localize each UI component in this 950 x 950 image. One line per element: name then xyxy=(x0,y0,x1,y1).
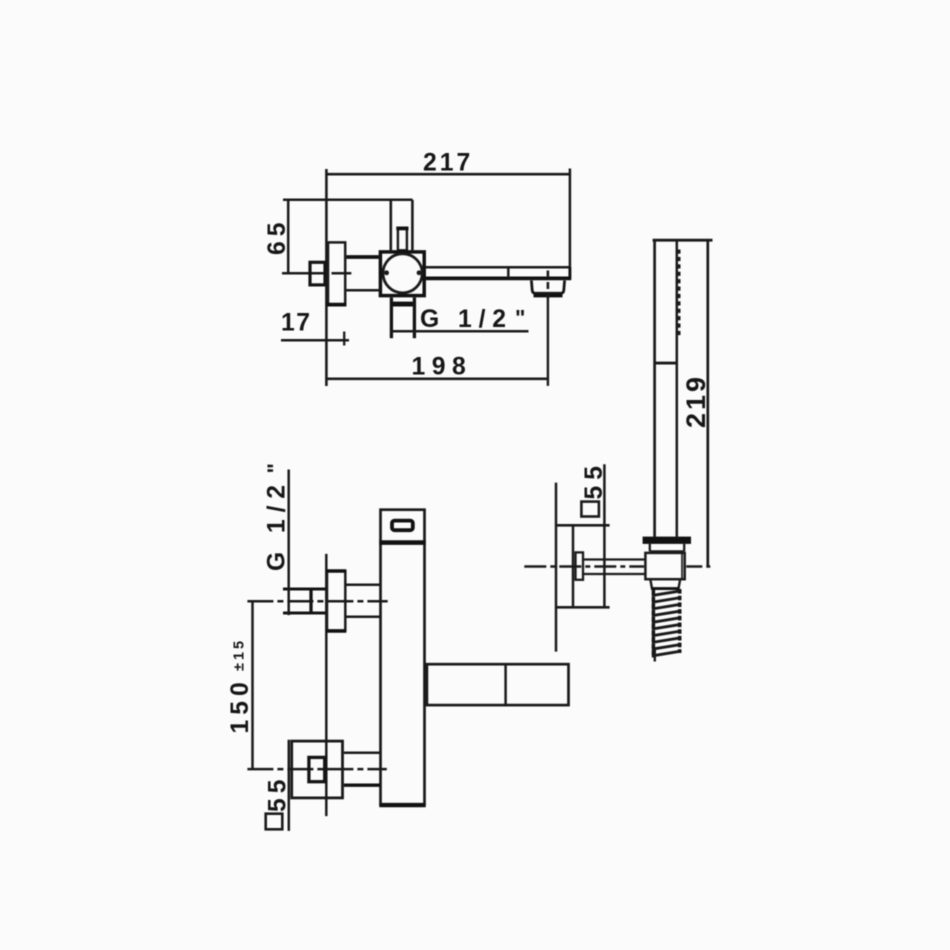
dimension 198 text xyxy=(412,354,473,381)
lower connector (front view) xyxy=(344,753,380,785)
handle end cap bar xyxy=(643,537,691,544)
dimension 17 line xyxy=(281,339,349,342)
svg-text:1 / 2: 1 / 2 xyxy=(458,306,506,333)
square-55 leader / plate right edge (bracket) xyxy=(603,464,606,607)
handle neck xyxy=(650,544,684,552)
upper port outline risers (top view) xyxy=(391,200,413,251)
wall line (top view left extension) xyxy=(325,169,328,386)
upper inlet nut xyxy=(283,589,326,613)
screw dot left xyxy=(384,270,389,275)
mixer body (front view) xyxy=(379,510,425,806)
shower outlet below valve (top view) xyxy=(391,298,414,339)
upper connector (front view) xyxy=(345,585,380,617)
hose collar xyxy=(651,580,681,588)
dimension 219 text rotated xyxy=(681,374,711,428)
upper wall plate escutcheon (front view) xyxy=(326,571,346,631)
diverter stem (top view) xyxy=(396,228,408,250)
wand spray texture nubs xyxy=(678,250,681,336)
spout (front view) xyxy=(427,663,569,706)
svg-text:65: 65 xyxy=(264,218,291,255)
diverter window xyxy=(392,521,413,531)
square symbol (front view label) xyxy=(266,814,283,830)
dimension 17 extension tick xyxy=(343,332,345,346)
connector nut (top view) xyxy=(310,262,325,285)
hose coil left edge blocks xyxy=(652,590,656,658)
bracket arm xyxy=(584,560,645,575)
aerator nozzle (top view) xyxy=(531,281,564,296)
dimension 150 line xyxy=(251,601,254,769)
body-to-wall connector (top view) xyxy=(346,257,378,290)
svg-text:55: 55 xyxy=(265,775,292,812)
svg-text:G: G xyxy=(420,306,439,333)
svg-text:": " xyxy=(515,306,525,331)
aerator dashed centerline / 198 right extension xyxy=(547,271,550,386)
upper inlet centerline xyxy=(247,600,387,603)
55 text rotated (front view) xyxy=(265,775,292,812)
svg-text:±15: ±15 xyxy=(231,638,247,671)
lower inlet centerline xyxy=(247,768,386,771)
dimension 217 right extension xyxy=(569,169,572,269)
dimension 150 text rotated xyxy=(227,677,254,733)
G 1/2 text (top view) xyxy=(420,306,525,334)
square-55 leader line (front view) xyxy=(288,740,291,831)
svg-text:217: 217 xyxy=(423,149,473,176)
cartridge circle xyxy=(383,254,422,293)
G 1/2 leader line (top view) xyxy=(390,330,529,333)
wall line (bracket) xyxy=(555,483,558,652)
svg-text:198: 198 xyxy=(412,354,473,381)
dimension 65 text (rotated) xyxy=(264,218,291,255)
tolerance +-15 text rotated xyxy=(231,638,247,671)
body top divider bar xyxy=(379,540,425,545)
dimension 17 text xyxy=(281,310,311,337)
svg-text:": " xyxy=(263,463,288,473)
dimension 217 line xyxy=(326,173,570,176)
shower wand body xyxy=(655,240,677,537)
lower square escutcheon (front view) xyxy=(292,741,343,798)
svg-text:55: 55 xyxy=(581,460,608,499)
svg-text:17: 17 xyxy=(281,310,311,337)
screw dot right xyxy=(417,270,422,275)
dimension 65 line xyxy=(287,199,290,273)
dimension 65 top extension line xyxy=(283,199,413,202)
svg-text:1 / 2: 1 / 2 xyxy=(263,485,290,533)
valve body (top view) xyxy=(380,252,424,296)
spout (top view) xyxy=(426,267,571,280)
svg-text:219: 219 xyxy=(681,374,711,428)
hose connector block xyxy=(645,553,684,579)
bracket escutcheon plate xyxy=(557,525,610,607)
dimension 198 line xyxy=(326,377,548,380)
flexible hose coil xyxy=(652,591,682,656)
G 1/2 leader line (front view) xyxy=(287,470,290,616)
bracket centerline xyxy=(524,565,713,568)
dimension 219 line xyxy=(706,240,709,566)
55 text rotated (bracket) xyxy=(581,460,608,499)
wall plate escutcheon (top view) xyxy=(327,242,346,304)
dimension 217 text xyxy=(423,149,473,176)
svg-text:G: G xyxy=(263,552,290,571)
centerline of inlet (top view) xyxy=(282,272,351,275)
hose end tail xyxy=(654,650,656,662)
hose coil right edge blocks xyxy=(678,589,682,653)
square symbol (bracket label) xyxy=(581,502,599,517)
svg-text:150: 150 xyxy=(227,677,254,733)
lower inlet nut square xyxy=(309,757,325,781)
wand top extension line xyxy=(653,239,713,242)
G 1/2 text rotated (front view) xyxy=(263,463,291,571)
bracket pin boss xyxy=(576,552,584,579)
wall line (front view) xyxy=(325,554,328,816)
